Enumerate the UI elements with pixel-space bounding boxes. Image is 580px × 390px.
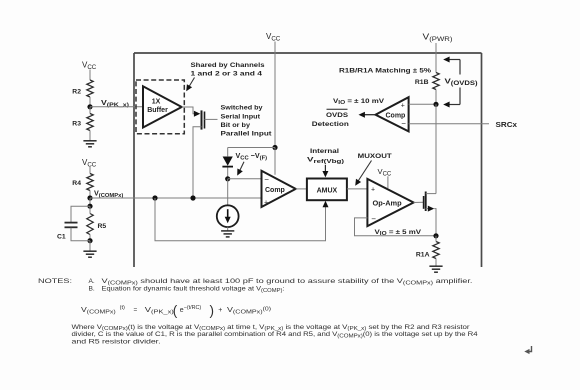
junction V(COMPx) (87, 195, 92, 200)
svg-text:NOTES:: NOTES: (38, 278, 72, 285)
svg-text:): ) (210, 303, 215, 318)
V(OVDS) bracket vertical (459, 60, 461, 75)
current source I1 (217, 205, 239, 227)
svg-text:=: = (134, 307, 138, 314)
wire VCC to R4 (89, 167, 91, 174)
resistor R3 (87, 114, 93, 131)
wire Q1 gate (205, 118, 218, 120)
svg-text:+: + (264, 200, 268, 207)
dashed box: shared buffer block (136, 80, 184, 134)
svg-text:R5: R5 (98, 223, 107, 230)
arrow into AMUX bottom (323, 201, 329, 207)
svg-text:Buffer: Buffer (147, 107, 168, 114)
IC boundary box (top, left, right edges) (134, 53, 482, 267)
svg-text:+: + (371, 186, 375, 193)
svg-text:R1A: R1A (416, 251, 430, 258)
svg-text:Comp: Comp (265, 187, 285, 194)
svg-text:Switched by: Switched by (221, 105, 263, 112)
junction R5/C1 bottom (87, 238, 92, 243)
wire to R5 (89, 206, 91, 213)
svg-text:+: + (401, 102, 405, 109)
resistor R1A (433, 242, 439, 259)
capacitor C1 (71, 206, 90, 222)
svg-text:R1B/R1A Matching ± 5%: R1B/R1A Matching ± 5% (339, 67, 431, 74)
op-amp U3 (1X Buffer) (143, 86, 182, 127)
wire R1A to ground (435, 259, 437, 266)
op-amp U4 (Comp) (262, 171, 296, 207)
svg-text:R4: R4 (72, 180, 81, 187)
leader line (239, 162, 244, 172)
leader line (188, 78, 194, 88)
junction V(COMPx) rail / AMUX feed (152, 195, 157, 200)
arrow to OVDS detection (359, 112, 365, 118)
ground (R3) (83, 141, 96, 147)
wire VCC to R2 (89, 70, 91, 81)
svg-text:Op-Amp: Op-Amp (373, 198, 403, 207)
svg-text:(t): (t) (120, 305, 125, 311)
wire op-amp output to Q2 gate (414, 201, 424, 203)
svg-text:R3: R3 (72, 121, 81, 128)
svg-text:−: − (371, 215, 376, 224)
svg-text:1X: 1X (152, 98, 161, 105)
wire V(COMPx) rail to comparator + input (90, 197, 262, 199)
ground (current source) (221, 231, 234, 237)
svg-text:A.: A. (89, 278, 95, 285)
junction V(PK_x) (87, 104, 92, 109)
label OVDS Detection (overline) (327, 108, 348, 110)
wire Q2 drain (426, 193, 436, 195)
junction VCC rail / diode feed (272, 145, 277, 150)
wire Q2 source (426, 208, 428, 210)
resistor R5 (87, 214, 93, 235)
wire node to R3 (89, 107, 91, 114)
svg-text:Detection: Detection (312, 121, 349, 128)
arrow into AMUX top (322, 171, 328, 177)
leader line (358, 161, 372, 182)
Q2 channel bar (425, 192, 427, 212)
wire V(PK_x) to buffer input (90, 106, 143, 108)
Q1 channel bar (201, 110, 203, 129)
svg-text:Internal: Internal (310, 148, 339, 155)
svg-text:Parallel Input: Parallel Input (221, 131, 273, 138)
svg-text:C1: C1 (57, 234, 66, 241)
wire Q2 source down to feedback node (434, 209, 436, 236)
junction Q1 drain / V(COMPx) rail (190, 195, 195, 200)
svg-text:MUXOUT: MUXOUT (358, 153, 393, 160)
wire VCC rail to diode (228, 147, 275, 149)
junction R5/C1 top (87, 204, 92, 209)
wire VCC down to diode rail (274, 42, 276, 148)
wire Vref to AMUX top (324, 165, 326, 172)
diode D1 (227, 148, 229, 157)
return symbol (527, 346, 532, 352)
arrow Q1 source (194, 111, 200, 117)
block U5 AMUX (307, 179, 347, 201)
svg-text:(: ( (173, 303, 178, 318)
wire comparator - input to SRCx pin (409, 123, 489, 125)
wire diode node to current source (227, 179, 229, 206)
wire R4 to node V(COMPx) (89, 191, 91, 199)
wire Q1 drain down to V(COMPx) rail (193, 127, 202, 198)
wire R1B bottom to node (435, 90, 437, 105)
op-amp U2 (OVDS comparator, points left) (376, 97, 409, 131)
resistor R4 (87, 174, 93, 191)
resistor R2 (87, 80, 93, 97)
wire comparator output (361, 114, 376, 116)
arrow Q2 source (428, 206, 434, 212)
wire buffer output to Q1 source (182, 107, 195, 114)
svg-text:Bit or by: Bit or by (221, 122, 251, 129)
wire feedback op-amp - input (355, 218, 437, 236)
wire V(PWR) down to R1B (435, 43, 437, 73)
wire comparator + input to R1B node (409, 103, 434, 105)
svg-text:and R5 resistor divider.: and R5 resistor divider. (72, 338, 161, 345)
junction feedback / R1A (433, 233, 438, 238)
op-amp U6 (Op-Amp) (367, 179, 413, 226)
svg-text:+: + (218, 307, 222, 314)
ground (R5/C1) (83, 251, 96, 257)
wire VCC to op-amp (387, 176, 389, 188)
wire VCC to comparator top (274, 148, 276, 175)
svg-text:B.: B. (89, 286, 95, 293)
wire AMUX output (MUXOUT) to op-amp + (347, 188, 368, 190)
wire diode node to comparator - input (228, 178, 262, 180)
svg-text:Shared by Channels: Shared by Channels (191, 62, 265, 69)
svg-text:−: − (401, 119, 406, 128)
V(OVDS) bracket bottom arrow (446, 104, 460, 106)
wire node down to FET drain (435, 104, 437, 193)
wire V(COMPx) to AMUX bottom input (155, 198, 326, 241)
wire R5 to bottom node (89, 235, 91, 241)
wire node down (89, 198, 91, 206)
wire comparator output to AMUX (296, 188, 307, 190)
svg-text:1 and 2 or 3 and 4: 1 and 2 or 3 and 4 (191, 70, 263, 77)
wire node to R1A (435, 236, 437, 242)
svg-text:Serial Input: Serial Input (221, 113, 261, 120)
svg-text:OVDS: OVDS (326, 112, 349, 119)
wire R3 to ground (89, 131, 91, 141)
junction diode cathode / comparator - (225, 176, 230, 181)
svg-text:SRCx: SRCx (496, 122, 518, 129)
svg-text:−: − (264, 175, 269, 184)
ground (R1A) (429, 266, 442, 272)
Q2 gate bar (423, 196, 425, 209)
junction: R1B / comparator + / output FET drain (433, 102, 438, 107)
V(OVDS) bracket top arrow (446, 59, 460, 61)
wire to ground (89, 241, 91, 251)
svg-text:AMUX: AMUX (317, 187, 338, 194)
wire R2 to node V(PK_x) (89, 97, 91, 107)
wire to ground (227, 227, 229, 231)
svg-text:R1B: R1B (415, 79, 429, 86)
svg-text:R2: R2 (72, 88, 81, 95)
resistor R1B (433, 73, 439, 90)
Q1 gate bar (204, 112, 206, 129)
